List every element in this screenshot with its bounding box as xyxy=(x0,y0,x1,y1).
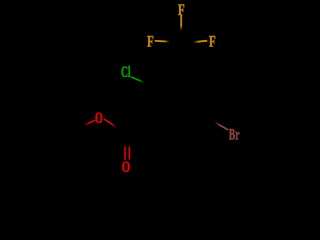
svg-text:O: O xyxy=(95,108,103,126)
bond C7-F2 (horizontal, fades toward CF3 carbon) xyxy=(155,40,170,43)
double bond C9=O2 line b xyxy=(129,144,131,159)
bond C2-Cl (diagonal, fades toward ring carbon) xyxy=(131,76,145,83)
svg-text:Br: Br xyxy=(229,125,240,143)
svg-text:Cl: Cl xyxy=(121,63,131,81)
bond O1-C9 (to carbonyl carbon, fades toward carbon) xyxy=(103,118,117,128)
svg-text:F: F xyxy=(209,32,216,50)
bond C8-O1 (to ethyl CH2, fades toward carbon) xyxy=(84,119,96,126)
svg-text:F: F xyxy=(147,32,154,50)
bond C5-Br (diagonal, fades toward ring carbon) xyxy=(214,121,228,131)
bond C7-F1 (vertical, fades toward CF3 carbon) xyxy=(180,15,182,31)
bond C7-F3 (horizontal, fades toward CF3 carbon) xyxy=(194,40,208,43)
double bond C9=O2 line a xyxy=(124,144,126,159)
svg-text:O: O xyxy=(122,158,130,176)
